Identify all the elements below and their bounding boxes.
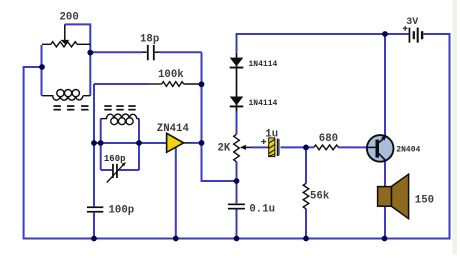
node ground 4 [303, 236, 309, 242]
wire: tank2 bottom left [101, 169, 110, 171]
node top rail [382, 31, 388, 37]
svg-text:2N404: 2N404 [396, 145, 420, 154]
wire: 100k row left [94, 83, 149, 85]
ferrite core (shared, dashes) [54, 105, 136, 110]
potentiometer 200 [42, 24, 90, 47]
node 0.1u top [234, 178, 240, 184]
wire: tank2 right vertical [138, 119, 140, 170]
wire: 1u to 680 junction [281, 146, 314, 148]
speaker 150 [378, 174, 409, 219]
node antenna tap [39, 64, 45, 70]
svg-text:2K: 2K [218, 143, 231, 155]
wire: tank1 left vertical [41, 45, 43, 96]
inductor L1 (antenna coil primary) [42, 90, 90, 101]
svg-text:680: 680 [319, 133, 338, 145]
node ZN414 output [199, 140, 205, 146]
svg-text:200: 200 [60, 12, 79, 24]
wire: pot 200 wiper to tank1 right vertical [65, 24, 91, 95]
svg-text:3V: 3V [406, 17, 418, 28]
wire: 2K wiper to 1u [251, 146, 267, 148]
wire: 680 to transistor base [338, 146, 367, 148]
wire: tank2 left vertical [100, 119, 102, 170]
svg-text:150: 150 [415, 194, 434, 206]
node 18p tap [87, 50, 93, 56]
resistor 680 [314, 145, 339, 150]
wire: ZN414 ground pin [175, 148, 177, 239]
svg-text:1u: 1u [265, 128, 278, 140]
node tank2 right [136, 140, 142, 146]
wire: output column [202, 52, 237, 181]
capacitor 160p (variable) [107, 162, 126, 183]
wire: tank2 bottom right [120, 169, 139, 171]
node 100k-output [199, 81, 205, 87]
wire: mid vertical upper [93, 84, 95, 206]
node ground 5 [382, 236, 388, 242]
node input row left [91, 140, 97, 146]
capacitor 100p [87, 206, 103, 212]
node ground 2 [173, 236, 179, 242]
wire: ZN414 input row [94, 142, 168, 144]
wire: left rail / bottom rail / right rail [24, 34, 450, 239]
svg-text:160p: 160p [104, 154, 126, 164]
inductor L2 (secondary coil) [101, 114, 139, 125]
IC ZN414 (amplifier triangle) [167, 133, 190, 152]
capacitor 1u (electrolytic) [261, 138, 280, 157]
wire: 0.1u cap to bottom rail [236, 209, 238, 238]
wire: 18p row left [90, 51, 142, 53]
wire: 56k column lower [305, 209, 307, 239]
wire: ZN414 output [190, 142, 202, 144]
wire: top rail to diodes [237, 34, 409, 53]
wire: diode chain to 2K pot [236, 112, 238, 135]
wire: mid vertical lower [93, 213, 95, 239]
node base junction [303, 145, 309, 151]
diode D1 1N4114 [230, 53, 244, 112]
node ground 3 [234, 236, 240, 242]
resistor 100k [149, 82, 202, 87]
svg-text:100k: 100k [158, 69, 184, 81]
diode D2 1N4114 [230, 97, 244, 108]
wire: transistor emitter to top rail [384, 34, 386, 137]
svg-text:0.1u: 0.1u [249, 204, 275, 216]
wire: 56k column upper [305, 147, 307, 183]
node tank2 left [98, 140, 104, 146]
svg-text:1N4114: 1N4114 [249, 99, 278, 108]
potentiometer 2K [234, 134, 251, 162]
svg-text:100p: 100p [109, 205, 135, 217]
svg-text:18p: 18p [140, 34, 159, 46]
svg-text:1N4114: 1N4114 [249, 60, 278, 69]
node ground 1 [91, 236, 97, 242]
capacitor 0.1u [228, 204, 245, 210]
transistor Q1 2N404 [367, 135, 394, 162]
wire: transistor collector through speaker to bottom rail [384, 161, 386, 239]
svg-text:56k: 56k [310, 191, 330, 203]
capacitor 18p [142, 45, 160, 60]
wire: 2K pot to 0.1u cap [236, 162, 238, 204]
resistor 56k [303, 183, 309, 208]
wire: 18p row right [160, 51, 202, 53]
battery 3V [403, 26, 423, 43]
svg-text:ZN414: ZN414 [157, 123, 190, 135]
